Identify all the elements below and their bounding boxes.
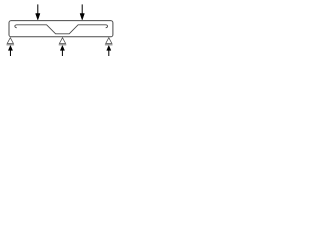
support C triangle [105,38,113,45]
beam outline [9,21,113,37]
tendon profile with end hooks [15,25,108,34]
load arrow P2 [80,4,84,20]
reaction arrow RA [8,46,12,56]
support B triangle [59,38,67,45]
reaction arrow RB [60,46,64,56]
load arrow P1 [36,4,40,20]
reaction arrow RC [107,46,111,56]
support A triangle [7,38,15,45]
